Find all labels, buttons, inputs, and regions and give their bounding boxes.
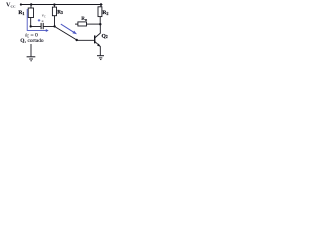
node Y dot (76, 39, 78, 41)
resistor R3 (52, 7, 63, 16)
wire R1 top lead (30, 5, 32, 9)
wire Q2 emitter vertical (99, 47, 101, 56)
svg-text:R3: R3 (57, 9, 63, 15)
svg-text:vC: vC (42, 13, 47, 19)
wire ground stub left (30, 44, 32, 56)
node A dot (30, 25, 32, 27)
ground right (97, 56, 104, 60)
wire R2 bottom lead (99, 17, 101, 25)
svg-text:R2: R2 (102, 10, 108, 16)
wire R1 bottom lead (30, 18, 32, 27)
ground left (27, 57, 36, 61)
svg-text:Q2: Q2 (102, 33, 108, 39)
wire Q2 collector vertical (99, 24, 101, 33)
wire node A to capacitor (31, 26, 41, 28)
node junction dot R1 (30, 3, 32, 5)
label plus (blue) (38, 19, 41, 22)
node X dot (53, 25, 55, 27)
resistor R1 (18, 8, 33, 18)
node rail left end dot (20, 3, 22, 5)
node junction dot R2 (100, 3, 102, 5)
power label VCC (6, 1, 16, 8)
wire diagonal node X to node Y (55, 27, 77, 40)
svg-text:Q1 cortado: Q1 cortado (20, 38, 44, 44)
resistor R2 (98, 7, 108, 17)
wire base of Q2 (77, 39, 95, 41)
wire Vcc rail (20, 4, 102, 6)
svg-text:VCC: VCC (6, 1, 16, 8)
node B dot (99, 23, 101, 25)
wire R3 bottom lead (54, 16, 56, 27)
wire R3 top lead (53, 5, 55, 8)
node junction dot R3 (53, 3, 55, 5)
blue loop arrow left (down then right) (27, 9, 49, 32)
blue diagonal arrow to Q2 base (61, 24, 77, 34)
wire R2 top lead (100, 5, 102, 7)
capacitor C plates (41, 23, 43, 29)
resistor RB (75, 17, 100, 26)
transistor Q2 (95, 33, 108, 47)
label minus (42, 20, 44, 22)
wire capacitor to node X (43, 26, 55, 28)
svg-text:R1: R1 (18, 10, 24, 16)
